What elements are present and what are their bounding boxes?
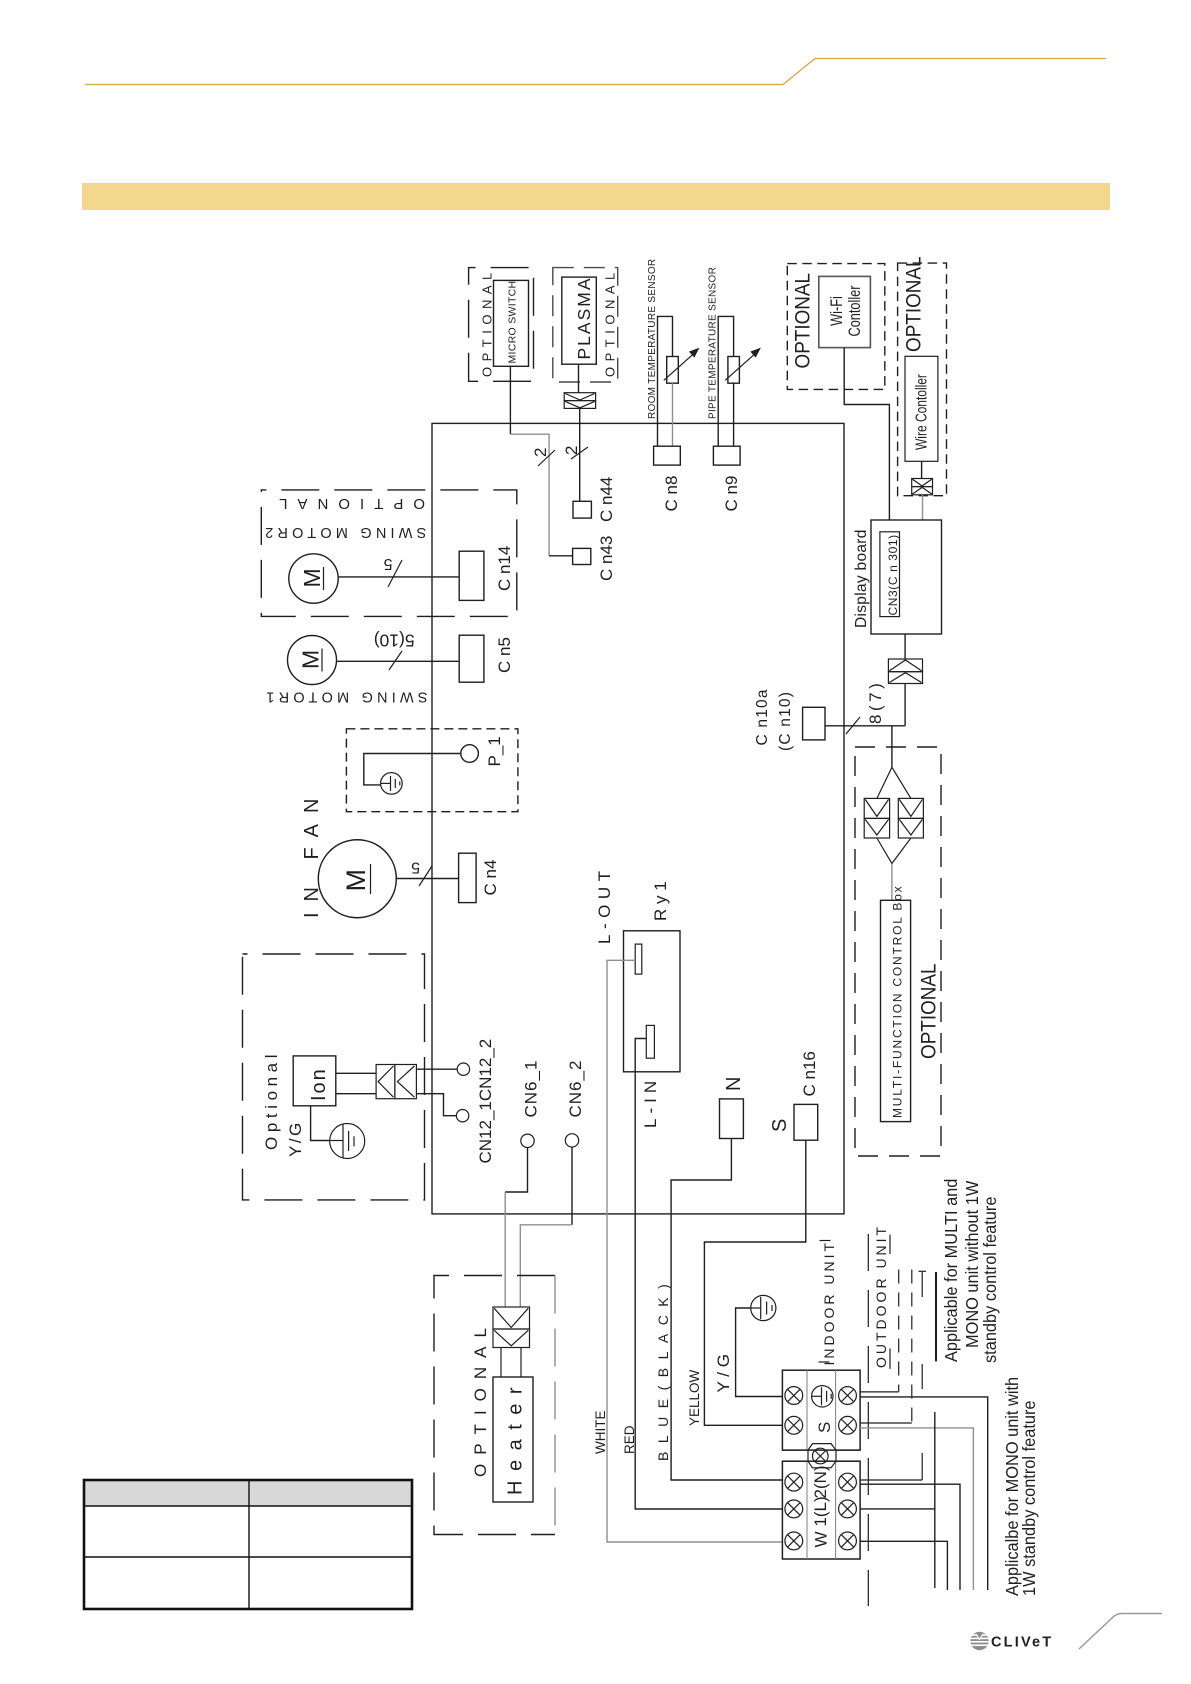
wires ion to connector (336, 1072, 376, 1074)
svg-text:2: 2 (562, 446, 581, 455)
connector pair (ion) (376, 1065, 416, 1099)
wire ion to ground (311, 1106, 330, 1141)
wire micro switch to Cn43 (509, 366, 511, 434)
wire connector to heater right (520, 1348, 522, 1378)
main PCB board outline (432, 423, 844, 1214)
svg-text:L-OUT: L-OUT (595, 866, 614, 945)
heater dashed box right edge (gray) (554, 1276, 556, 1535)
svg-text:standby control feature: standby control feature (979, 1197, 1000, 1363)
svg-text:Applicable for MULTI and: Applicable for MULTI and (940, 1179, 961, 1362)
outdoor dashed bracket right (889, 1235, 891, 1254)
terminal screws (785, 1387, 857, 1550)
ground (Y/G) (751, 1295, 776, 1320)
heater optional dashed box (434, 1276, 555, 1535)
wire P_1 to ground (364, 754, 461, 785)
svg-text:5: 5 (384, 555, 393, 572)
svg-text:5(10): 5(10) (374, 631, 415, 651)
wire CN6_1 lower (gray) (504, 1192, 506, 1307)
svg-text:Display board: Display board (853, 529, 870, 628)
svg-text:CN6_1: CN6_1 (522, 1060, 541, 1118)
wire motor2 to Cn14 (338, 576, 459, 578)
bus slash 2 (micro switch wire) (538, 450, 555, 466)
multi-function control box (881, 900, 911, 1121)
room temperature sensor (647, 259, 700, 512)
wire outdoor 2N stub (921, 1453, 923, 1480)
svg-text:CN12_1CN12_2: CN12_1CN12_2 (476, 1039, 495, 1164)
svg-text:C n43: C n43 (597, 536, 616, 581)
svg-text:1W standby control feature: 1W standby control feature (1018, 1400, 1039, 1596)
wire N (BLUE) to terminal 2N (671, 1139, 782, 1481)
wire connector to display board (922, 495, 924, 520)
svg-text:MICRO SWITCH: MICRO SWITCH (507, 281, 519, 364)
svg-text:S: S (769, 1119, 791, 1132)
connector N (720, 1099, 744, 1139)
connector Cn9 (713, 446, 740, 465)
svg-text:S: S (815, 1422, 834, 1433)
thermistor element (667, 357, 679, 384)
svg-text:SWING MOTOR1: SWING MOTOR1 (262, 689, 427, 705)
svg-text:1(L): 1(L) (811, 1496, 830, 1526)
connector Cn43 (573, 548, 591, 564)
svg-text:Optional: Optional (262, 1050, 281, 1150)
wire junction to Cn10a (825, 725, 905, 727)
terminal label: ground symbol (812, 1386, 833, 1407)
bus slash 5 (388, 560, 402, 587)
svg-text:ROOM TEMPERATURE SENSOR: ROOM TEMPERATURE SENSOR (647, 259, 658, 419)
joint screw (813, 1448, 829, 1464)
svg-text:OUTDOOR UNIT: OUTDOOR UNIT (873, 1224, 889, 1368)
svg-text:Ion: Ion (308, 1067, 330, 1101)
ground (ion) (330, 1124, 365, 1159)
wire display board down (904, 634, 906, 659)
wire junction down to multi-function box (891, 726, 893, 768)
svg-text:OPTIONAL: OPTIONAL (792, 273, 815, 369)
wire L-OUT (WHITE) to terminal W (607, 960, 782, 1542)
wire wifi to display board (844, 348, 889, 520)
node CN12_2 (457, 1063, 469, 1075)
wire plasma to connector (578, 364, 580, 393)
ground (P_1 box) (381, 773, 403, 795)
wire terminal W long (860, 1541, 947, 1590)
relay coil (646, 1025, 654, 1058)
svg-text:CN3(C n 301): CN3(C n 301) (886, 534, 900, 615)
wire connector to CN12_1 (416, 1094, 456, 1116)
wire outdoor 2N dash upper (921, 1272, 923, 1297)
svg-text:YELLOW: YELLOW (687, 1369, 702, 1426)
joint plate octagon (782, 1444, 860, 1468)
wire terminal 1L long (860, 1508, 935, 1510)
bus slash 2 (plasma wire) (571, 447, 588, 459)
svg-text:Y / G: Y / G (714, 1354, 733, 1392)
svg-text:OPTIONAL: OPTIONAL (480, 267, 495, 377)
svg-text:W: W (812, 1531, 831, 1547)
svg-text:Heater: Heater (505, 1378, 527, 1495)
svg-text:C n16: C n16 (800, 1051, 819, 1096)
wifi controller box U-WIFI (819, 276, 871, 347)
display board box (871, 520, 942, 634)
ion generator box (293, 1056, 336, 1106)
svg-text:Wi-Fi: Wi-Fi (827, 296, 846, 326)
tick outdoor 2N top (919, 1270, 927, 1272)
connector Cn14 (459, 551, 484, 600)
wire S (YELLOW) to terminal S (704, 1140, 805, 1425)
dash mark below INDOOR UNIT (819, 1361, 830, 1363)
relay contact (635, 944, 642, 974)
wire controller box (905, 356, 938, 461)
svg-text:OPTIONAL: OPTIONAL (903, 256, 926, 352)
svg-text:8(7): 8(7) (866, 680, 885, 724)
wire to multi-function control box (891, 864, 893, 901)
multi-function optional dashed box (855, 747, 941, 1156)
optional Y/G ion dashed box (243, 954, 425, 1200)
P_1 dashed box (346, 729, 518, 812)
motor IN FAN (318, 840, 396, 918)
svg-text:2(N): 2(N) (811, 1465, 830, 1498)
svg-text:C n14: C n14 (495, 546, 514, 591)
svg-text:M: M (299, 568, 325, 587)
wire fan motor to Cn4 (396, 878, 458, 880)
outdoor dashed bracket right lower (889, 1348, 891, 1369)
relay Ry1 box (624, 931, 681, 1072)
node CN12_1 (456, 1110, 468, 1122)
node CN6_1 (521, 1134, 534, 1147)
svg-text:C n4: C n4 (481, 860, 500, 896)
wire motor1 to Cn5 (337, 660, 460, 662)
svg-text:M: M (298, 650, 324, 669)
connector Cn8 (654, 446, 681, 465)
fan motor M underline (370, 864, 372, 894)
svg-text:P_1: P_1 (485, 736, 504, 766)
svg-text:R y 1: R y 1 (651, 881, 670, 921)
wire to junction (904, 684, 906, 726)
wire terminal ground long (860, 1397, 988, 1590)
svg-text:OPTIONAL: OPTIONAL (918, 963, 941, 1059)
wire rejoin diamond bottom (877, 838, 911, 864)
svg-text:RED: RED (622, 1425, 637, 1454)
wire outdoor 2N dash lower (921, 1364, 923, 1389)
note: applicable for MONO (1001, 1377, 1039, 1596)
wire CN6_1 to heater connector (505, 1148, 527, 1193)
table bottom-left (84, 1480, 412, 1609)
svg-text:Contoller: Contoller (845, 286, 864, 337)
svg-text:2: 2 (531, 448, 550, 457)
connector pair right (multi-function) (898, 798, 923, 838)
connector pair (wire controller) (912, 479, 933, 495)
wires connector to heater (500, 1348, 502, 1378)
svg-text:CLIVeT: CLIVeT (991, 1635, 1053, 1651)
wire terminal S to outdoor (dashed) (860, 1422, 912, 1424)
plasma box (562, 277, 597, 364)
connector pair left (multi-function) (864, 798, 889, 838)
connector Cn4 (459, 853, 477, 902)
terminal block lower section (782, 1461, 860, 1559)
svg-text:C n44: C n44 (597, 477, 616, 522)
motor M2 (289, 554, 338, 603)
micro switch box U-MS (494, 280, 529, 366)
node CN6_2 (565, 1134, 578, 1147)
swing motor2 optional dashed box (261, 490, 517, 617)
svg-text:C n5: C n5 (495, 637, 514, 673)
wire split diamond top (877, 767, 911, 798)
micro switch optional bracket box (469, 268, 534, 382)
svg-text:Y/G: Y/G (286, 1120, 305, 1157)
svg-text:PLASMA: PLASMA (574, 277, 594, 360)
svg-text:SWING MOTOR2: SWING MOTOR2 (261, 524, 426, 540)
svg-text:PIPE TEMPERATURE SENSOR: PIPE TEMPERATURE SENSOR (708, 267, 719, 419)
bus slash 5 (fan) (419, 866, 432, 886)
connector S / Cn16 (794, 1104, 818, 1140)
wire L-IN (RED) to terminal 1L (635, 1039, 782, 1510)
svg-text:N: N (723, 1077, 745, 1091)
wire to connector (921, 461, 923, 478)
block inner dividers (807, 1370, 836, 1559)
svg-text:(C n10): (C n10) (777, 691, 794, 751)
arrow (664, 351, 696, 380)
bus slash (389, 651, 402, 670)
sensor loop wires (658, 316, 673, 446)
svg-text:WHITE: WHITE (593, 1411, 608, 1455)
wire ion to connector lower (336, 1093, 376, 1095)
dash mark above INDOOR UNIT (820, 1240, 831, 1242)
svg-text:Wire Contoller: Wire Contoller (912, 374, 930, 450)
wire terminal ground to outdoor (dashed) (860, 1391, 899, 1393)
CLIVET logo (970, 1614, 1162, 1651)
wire terminal 1L vertical (934, 1412, 936, 1588)
svg-text:C n9: C n9 (722, 476, 741, 512)
svg-text:L-IN: L-IN (641, 1076, 660, 1128)
wifi optional dashed box (787, 264, 885, 390)
note bracket (935, 1272, 937, 1361)
connector pair (display lead) (888, 659, 922, 684)
wire connector to Cn44 (579, 408, 581, 501)
svg-text:OPTIONAL: OPTIONAL (269, 495, 425, 512)
svg-text:5: 5 (411, 859, 420, 876)
wire outdoor ground (dashed) (898, 1270, 900, 1392)
note: applicable for MULTI (940, 1179, 1000, 1363)
wire into Cn43 (549, 555, 573, 557)
wire connector to CN12_2 (416, 1068, 457, 1070)
heater box (493, 1377, 533, 1502)
header gold rule (85, 59, 1106, 85)
connector Cn44 (573, 501, 591, 518)
terminal block upper section (782, 1370, 860, 1450)
connector pair (plasma lead) (564, 393, 595, 409)
connector pair (heater) (493, 1307, 530, 1348)
motor M2 underline (323, 567, 325, 590)
wire CN6_2 lower (gray) (520, 1225, 572, 1307)
wire controller optional dashed box (898, 263, 947, 496)
pipe temperature sensor (708, 267, 761, 512)
wire Y/G to terminal ground (736, 1308, 783, 1397)
terminal P_1 (461, 745, 479, 763)
wire terminal S long (860, 1428, 973, 1590)
motor M1 underline (321, 649, 323, 672)
svg-text:CN6_2: CN6_2 (566, 1060, 585, 1118)
svg-text:M: M (341, 869, 371, 892)
wire thermistor to Cn8 (672, 383, 674, 446)
outdoor dashed bracket left (867, 1234, 869, 1606)
svg-text:IN FAN: IN FAN (301, 788, 323, 918)
wire micro switch jog (gray) (510, 434, 549, 556)
svg-text:OPTIONAL: OPTIONAL (471, 1319, 490, 1477)
wire CN6_2 to heater connector (571, 1147, 573, 1225)
wire terminal 2N to outdoor (dashed) (860, 1479, 922, 1481)
plasma optional dashed box (553, 268, 618, 382)
svg-text:BLUE(BLACK): BLUE(BLACK) (655, 1276, 671, 1461)
connector Cn5 (459, 635, 484, 682)
bus slash 8(7) (846, 717, 860, 734)
connector Cn10a (803, 707, 825, 740)
motor M1 (288, 636, 337, 685)
svg-text:C n8: C n8 (662, 476, 681, 512)
wire terminal 2N long (860, 1484, 960, 1590)
wire outdoor S (dashed) (911, 1270, 913, 1424)
connector CN3 (C n301) (880, 532, 900, 617)
svg-text:OPTIONAL: OPTIONAL (603, 267, 618, 377)
svg-text:C n10a: C n10a (754, 688, 771, 745)
svg-text:MULTI-FUNCTION CONTROL Box: MULTI-FUNCTION CONTROL Box (891, 885, 905, 1118)
svg-text:INDOOR UNIT: INDOOR UNIT (821, 1240, 837, 1366)
gold banner bar (82, 183, 1110, 210)
